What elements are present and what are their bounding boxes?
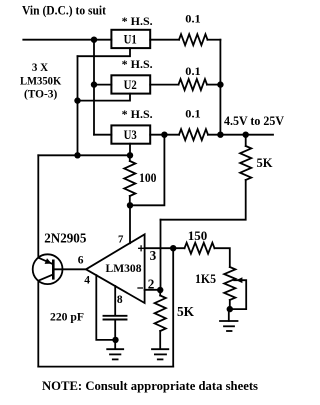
svg-text:5K: 5K: [177, 304, 195, 319]
wire row2 to rail: [207, 84, 220, 86]
regulator U1: [111, 30, 150, 48]
node adjust rail bottom: [74, 152, 80, 158]
wire pin 4: [96, 275, 115, 340]
svg-text:3 X: 3 X: [32, 62, 49, 74]
wire U2 output: [150, 84, 178, 86]
resistor R 100: [129, 155, 131, 161]
wire output terminal: [208, 134, 273, 136]
svg-text:0.1: 0.1: [185, 106, 200, 120]
capacitor C 220pF: [104, 315, 127, 317]
svg-text:8: 8: [117, 294, 123, 306]
node pin2: [157, 287, 163, 293]
node U3 out sense: [161, 132, 167, 138]
node pin3: [170, 245, 176, 251]
node rail bottom: [217, 132, 223, 138]
potentiometer R 1K5: [224, 267, 235, 300]
wire output rail: [219, 40, 221, 135]
node pot bottom: [227, 306, 233, 312]
svg-text:6: 6: [78, 255, 84, 267]
resistor 0.1 row3: [179, 129, 208, 140]
wire U2 input: [94, 84, 111, 86]
svg-text:2: 2: [148, 277, 155, 292]
wire adjust node horizontal: [38, 154, 130, 156]
wire sense to U3 output: [130, 135, 164, 206]
resistor 5K upper: [245, 135, 247, 146]
svg-text:LM308: LM308: [106, 262, 142, 275]
resistor 5K lower: [159, 290, 161, 296]
wire Vin input: [23, 39, 111, 41]
op-amp plus: [139, 246, 144, 251]
ground cap: [114, 340, 116, 349]
wire base to pin6: [53, 268, 86, 270]
svg-text:5K: 5K: [257, 156, 273, 170]
svg-text:Vin (D.C.) to suit: Vin (D.C.) to suit: [22, 4, 106, 18]
svg-text:U3: U3: [124, 127, 138, 142]
wire U3 adjust: [129, 144, 131, 156]
regulator U2: [111, 75, 150, 93]
svg-text:U1: U1: [124, 31, 137, 46]
svg-text:7: 7: [118, 233, 124, 245]
node input tee: [91, 37, 97, 43]
svg-text:4.5V to 25V: 4.5V to 25V: [224, 114, 284, 128]
node cap bottom: [112, 337, 118, 343]
wire U3 output: [150, 134, 179, 136]
op-amp U LM308: [86, 234, 145, 303]
svg-text:4: 4: [84, 275, 90, 287]
wire U1 output: [150, 39, 179, 41]
svg-text:100: 100: [139, 171, 157, 185]
wire U2 adjust: [78, 94, 131, 101]
svg-text:* H.S.: * H.S.: [122, 107, 153, 121]
node U2 input: [91, 81, 97, 87]
svg-text:0.1: 0.1: [185, 64, 200, 78]
wire feedback riser to pin3: [172, 248, 174, 366]
svg-text:(TO-3): (TO-3): [24, 89, 58, 101]
svg-text:LM350K: LM350K: [20, 75, 61, 87]
svg-text:1K5: 1K5: [195, 272, 216, 286]
resistor 0.1 row1: [179, 34, 208, 45]
svg-text:150: 150: [188, 228, 208, 243]
svg-text:* H.S.: * H.S.: [122, 57, 153, 71]
wire emitter riser: [37, 155, 39, 257]
wire adjust rail: [77, 56, 79, 155]
wire pin 8: [114, 286, 116, 316]
pot wiper arrow: [230, 280, 246, 309]
svg-text:NOTE: Consult appropriate data: NOTE: Consult appropriate data sheets: [42, 379, 258, 393]
wire 150 to pot: [215, 248, 230, 267]
svg-text:U2: U2: [124, 77, 137, 92]
wire row1 to rail: [208, 39, 221, 41]
wire U3 input: [94, 134, 111, 136]
regulator U3: [111, 125, 150, 143]
svg-text:0.1: 0.1: [185, 12, 200, 26]
wire bottom feedback: [38, 366, 173, 368]
wire pin2: [145, 289, 161, 291]
node U3 adjust: [127, 152, 133, 158]
wire pin 7: [129, 205, 131, 243]
transistor Q 2N2905: [33, 254, 63, 284]
svg-text:2N2905: 2N2905: [44, 231, 86, 246]
wire collector down: [37, 281, 39, 367]
node 5K top: [243, 132, 249, 138]
ground 5K lower: [152, 348, 168, 350]
node U2 adjust: [74, 97, 80, 103]
svg-text:3: 3: [150, 248, 157, 263]
op-amp minus: [138, 287, 142, 289]
node row2 rail: [217, 81, 223, 87]
node 100 bottom pin7: [127, 202, 133, 208]
wire minus input riser: [160, 220, 162, 290]
ground pot: [228, 309, 230, 321]
svg-text:220 pF: 220 pF: [50, 311, 84, 324]
svg-text:* H.S.: * H.S.: [122, 14, 153, 28]
resistor R 150: [185, 243, 215, 254]
wire input bus vertical: [93, 40, 95, 135]
wire U1 adjust: [78, 48, 131, 56]
resistor 0.1 row2: [179, 79, 208, 90]
wire pin3: [145, 247, 185, 249]
